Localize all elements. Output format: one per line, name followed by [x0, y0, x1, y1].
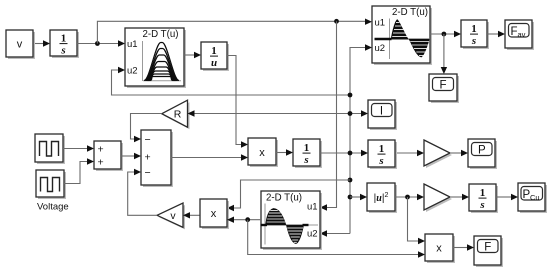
integrator copper loss 1/s	[469, 184, 498, 213]
integrator average force 1/s	[461, 20, 489, 49]
display F bottom	[474, 236, 503, 267]
svg-text:s: s	[479, 199, 484, 211]
svg-text:x: x	[436, 243, 442, 255]
svg-text:F: F	[484, 242, 491, 254]
svg-text:2-D T(u): 2-D T(u)	[266, 193, 302, 204]
wire integrator3 to integrator I display (current net head)	[320, 150, 368, 156]
wire product2 to gain v	[183, 212, 200, 218]
wire abs square to gain2	[395, 194, 424, 200]
wire pulse2 to sum1	[64, 158, 94, 183]
integrator U1 1/s	[50, 30, 79, 58]
wire force table to integrator2	[430, 31, 461, 37]
wire current net to abs square	[350, 194, 367, 200]
svg-text:u1: u1	[127, 39, 138, 50]
svg-text:I: I	[380, 106, 383, 118]
wire current net to gain R	[188, 110, 369, 116]
product block back-emf x	[200, 199, 229, 229]
svg-text:F: F	[439, 80, 446, 92]
svg-text:F: F	[511, 26, 518, 38]
display F top	[429, 74, 459, 103]
svg-text:1: 1	[304, 142, 310, 154]
wire 1/u to product (di/dt path)	[227, 56, 248, 148]
wire dL table output to product2	[227, 217, 261, 223]
wire gain to P display	[450, 150, 468, 156]
wire x-net down to force table u1	[320, 21, 337, 210]
svg-text:x: x	[211, 208, 217, 220]
wire product3 to F display bottom	[453, 244, 474, 250]
product block di/dt x 1/L	[248, 138, 278, 167]
junction integrator1 output	[95, 41, 100, 46]
svg-text:+: +	[145, 151, 151, 163]
svg-text:u1: u1	[375, 18, 386, 29]
junction squared current	[405, 195, 410, 200]
svg-text:2-D T(u): 2-D T(u)	[143, 29, 179, 40]
svg-text:v: v	[170, 210, 176, 222]
wire current net to product2 (bottom x block input 1)	[227, 180, 350, 211]
svg-text:u1: u1	[307, 202, 318, 213]
2-D lookup table L(i,x)	[125, 28, 186, 88]
wire pulse1 to sum1	[63, 145, 94, 151]
svg-text:R: R	[174, 109, 182, 121]
2-D lookup table dL/dx bottom (flipped)	[261, 191, 323, 250]
svg-text:2-D T(u): 2-D T(u)	[392, 7, 428, 18]
svg-text:v: v	[17, 39, 23, 51]
junction current source	[348, 151, 353, 156]
wire sum2 to product1	[171, 154, 248, 160]
product3 x	[425, 234, 455, 263]
svg-text:x: x	[259, 147, 265, 159]
2-D lookup table force F(i,x) top	[372, 6, 432, 65]
svg-text:1: 1	[211, 45, 217, 57]
wire gain R to sum2	[131, 114, 162, 143]
display P	[468, 139, 497, 169]
integrator power 1/s	[368, 140, 397, 169]
junction current to R and I	[348, 111, 353, 116]
svg-text:s: s	[60, 45, 65, 57]
svg-text:+: +	[98, 156, 104, 168]
wire integrator2 to Fav display	[487, 31, 505, 37]
wire squared current down to product3	[408, 197, 426, 244]
integrator current 1/s	[293, 139, 322, 168]
sum block add voltages	[94, 141, 123, 171]
junction current to abs square	[348, 195, 353, 200]
svg-text:s: s	[378, 155, 383, 167]
svg-text:1: 1	[379, 143, 385, 155]
wire integrator4 input	[395, 150, 424, 156]
svg-text:+: +	[98, 143, 104, 155]
junction current to L-table u2	[348, 93, 353, 98]
wire integrator1 to lookup L u1	[77, 40, 125, 46]
wire v to integrator1	[33, 40, 50, 46]
svg-text:1: 1	[480, 187, 486, 199]
gain R	[162, 100, 190, 129]
svg-text:u: u	[211, 57, 217, 69]
wire dL output down to product3	[248, 220, 425, 258]
source block v	[6, 30, 35, 59]
svg-text:−: −	[145, 167, 151, 179]
svg-text:P: P	[478, 145, 486, 157]
math function abs square	[367, 183, 397, 213]
wire gain v to sum2	[128, 169, 157, 216]
sum block sum2	[141, 130, 173, 187]
junction current to product2	[348, 178, 353, 183]
svg-text:s: s	[303, 154, 308, 166]
junction force output	[442, 32, 447, 37]
pulse generator 2 Voltage	[36, 170, 66, 199]
display PCu	[518, 183, 547, 213]
svg-text:u2: u2	[127, 66, 138, 77]
svg-text:1: 1	[61, 33, 67, 45]
wire L-table to 1/u	[184, 52, 201, 58]
pulse generator 1	[35, 134, 65, 164]
svg-text:av: av	[518, 30, 526, 39]
wire gain2 to integrator5	[450, 194, 469, 200]
math function 1/u	[201, 42, 229, 71]
junction node top x-net	[334, 19, 339, 24]
wire integrator5 to PCu display	[496, 194, 518, 200]
current net vertical bus	[320, 44, 372, 236]
gain triangle P row	[424, 140, 452, 168]
wire sum1 to sum2	[121, 153, 141, 159]
svg-text:−: −	[145, 134, 151, 146]
svg-text:u2: u2	[307, 229, 318, 240]
wire product1 to integrator3	[276, 149, 293, 155]
svg-text:1: 1	[471, 23, 477, 35]
junction dL output	[245, 217, 250, 222]
svg-text:Voltage: Voltage	[37, 202, 69, 213]
svg-text:u2: u2	[375, 43, 386, 54]
svg-text:Cu: Cu	[530, 193, 540, 202]
wire x-position net top run	[97, 19, 372, 44]
wire L-table u2 feed from current net	[112, 67, 351, 95]
svg-text:s: s	[471, 35, 476, 47]
wire force to F display	[441, 34, 447, 74]
gain triangle PCu row	[424, 184, 452, 212]
display I	[368, 100, 397, 130]
display Fav	[505, 20, 534, 50]
gain v	[157, 203, 185, 229]
